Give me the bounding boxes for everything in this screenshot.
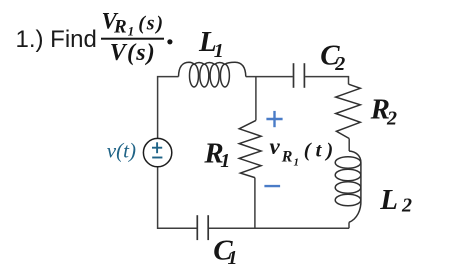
svg-text:1.) Find: 1.) Find bbox=[16, 26, 97, 53]
svg-text:1: 1 bbox=[214, 40, 224, 62]
svg-text:2: 2 bbox=[401, 194, 412, 216]
svg-text:1: 1 bbox=[294, 157, 300, 169]
svg-text:R: R bbox=[281, 148, 293, 165]
svg-text:R: R bbox=[113, 17, 127, 38]
svg-text:(t): (t) bbox=[304, 139, 338, 161]
svg-text:(s): (s) bbox=[138, 12, 165, 34]
svg-text:L: L bbox=[379, 184, 398, 216]
svg-text:V(s): V(s) bbox=[110, 40, 156, 66]
svg-text:v: v bbox=[270, 134, 281, 159]
svg-text:2: 2 bbox=[386, 107, 397, 129]
svg-text:1: 1 bbox=[128, 24, 135, 39]
svg-text:1: 1 bbox=[228, 247, 238, 268]
svg-text:v(t): v(t) bbox=[107, 139, 136, 163]
svg-text:2: 2 bbox=[334, 53, 345, 75]
svg-text:1: 1 bbox=[220, 150, 230, 172]
